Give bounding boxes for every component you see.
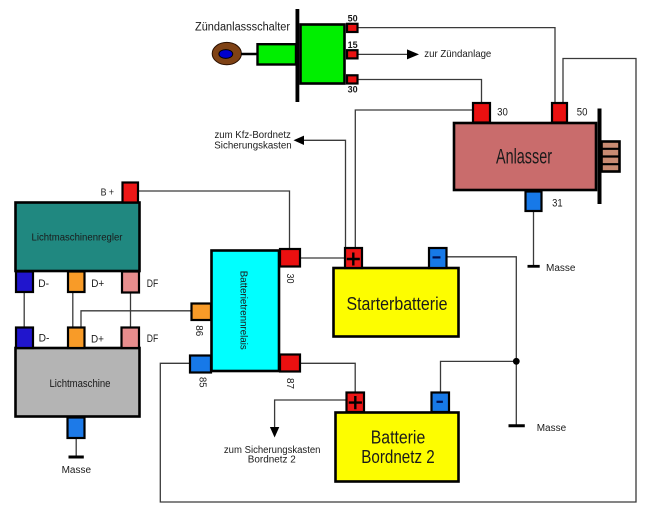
Batterie Bordnetz 2 plus terminal: [347, 393, 365, 413]
Batterie Bordnetz 2 body: [336, 413, 459, 482]
Starterbatterie plus terminal: [345, 248, 362, 268]
wire: regulator D- to Lichtmaschine D-: [23, 292, 25, 328]
arrowhead zum Sicherungskasten Bordnetz 2: [270, 427, 279, 438]
svg-text:30: 30: [284, 274, 296, 284]
svg-text:Masse: Masse: [546, 263, 576, 274]
wire: Lichtmaschine bottom terminal to ground: [75, 438, 77, 456]
junction dot: [513, 358, 520, 365]
ignition switch key inner ellipse: [219, 50, 233, 59]
relay terminal 30: [280, 249, 300, 267]
Starterbatterie body: [334, 268, 459, 337]
svg-text:DF: DF: [147, 333, 159, 345]
Lichtmaschine terminal D-: [16, 328, 33, 349]
svg-text:86: 86: [193, 325, 205, 336]
wire: ignition switch terminal 30 to Anlasser terminal 30: [358, 80, 482, 104]
wire: Starterbatterie plus to Anlasser terminal 30: [355, 110, 472, 248]
relay terminal 85: [190, 356, 211, 373]
svg-text:Bordnetz 2: Bordnetz 2: [361, 447, 435, 467]
svg-text:DF: DF: [147, 278, 159, 290]
svg-text:B +: B +: [101, 186, 115, 198]
wire: Starterbatterie plus to Kfz-Bordnetz arrow: [297, 140, 346, 248]
wire: relay terminal 87 to Batterie Bordnetz 2 plus: [300, 363, 355, 392]
svg-text:D+: D+: [91, 333, 104, 345]
svg-text:50: 50: [348, 14, 358, 24]
wire: ignition switch terminal 50 to Anlasser terminal 50: [358, 28, 555, 102]
svg-text:Bordnetz 2: Bordnetz 2: [248, 455, 296, 466]
wire: ignition switch terminal 15 to zur Zündanlage arrow: [358, 53, 409, 55]
Batterie Bordnetz 2 minus terminal: [432, 393, 450, 413]
Lichtmaschine terminal D+: [68, 328, 85, 349]
relay terminal 87: [280, 355, 300, 372]
regulator terminal DF: [122, 272, 139, 293]
wire: relay terminal 85 loop via bottom and right side to Anlasser terminal 50: [160, 59, 636, 503]
svg-text:Sicherungskasten: Sicherungskasten: [214, 140, 291, 151]
svg-text:Lichtmaschine: Lichtmaschine: [50, 378, 111, 390]
Batterietrennrelais body: [212, 251, 280, 372]
wire: regulator B+ to relay terminal 30: [138, 191, 290, 249]
label zum Sicherungskasten Bordnetz 2: [224, 445, 321, 466]
wire: Batterie Bordnetz 2 minus to junction: [441, 361, 517, 392]
arrowhead zum Kfz-Bordnetz: [294, 136, 305, 145]
Starterbatterie minus terminal: [429, 248, 447, 268]
wire: regulator D+ to Lichtmaschine D+: [72, 292, 74, 328]
svg-text:Batterietrennrelais: Batterietrennrelais: [238, 271, 250, 350]
wire: regulator DF to Lichtmaschine DF: [130, 293, 132, 328]
ignition switch key stem: [241, 53, 258, 56]
svg-text:31: 31: [552, 198, 563, 210]
wire: Starterbatterie minus to ground: [447, 257, 516, 425]
regulator terminal B+: [123, 183, 139, 203]
svg-text:87: 87: [284, 378, 296, 389]
ignition switch terminal 15: [347, 50, 358, 58]
ignition switch terminal 30: [347, 75, 358, 83]
Anlasser terminal 50: [552, 103, 567, 123]
ignition switch mounting bar: [296, 9, 300, 102]
svg-text:Masse: Masse: [537, 423, 567, 434]
svg-text:Lichtmaschinenregler: Lichtmaschinenregler: [32, 232, 123, 244]
arrowhead zur Zündanlage: [407, 49, 419, 59]
svg-text:Masse: Masse: [62, 465, 92, 476]
svg-text:30: 30: [348, 84, 358, 94]
Anlasser terminal 31: [526, 192, 542, 212]
ignition switch small green block: [258, 44, 297, 64]
wire: Batterie Bordnetz 2 plus to Sicherungskasten arrow: [275, 400, 347, 429]
Lichtmaschine terminal DF: [122, 328, 140, 349]
Anlasser body: [454, 123, 596, 190]
svg-text:D-: D-: [38, 278, 49, 290]
svg-text:85: 85: [197, 377, 209, 388]
Anlasser mounting bar: [598, 109, 602, 205]
Lichtmaschine body: [16, 348, 140, 417]
svg-text:Batterie: Batterie: [371, 428, 426, 448]
svg-text:D+: D+: [91, 278, 104, 290]
svg-text:Starterbatterie: Starterbatterie: [347, 294, 448, 314]
ground Masse at Anlasser: [528, 265, 540, 268]
regulator terminal D+: [68, 272, 85, 293]
ignition switch terminal 50: [347, 24, 358, 32]
Lichtmaschinenregler body: [16, 203, 140, 272]
wire: relay terminal 30 to Starterbatterie plus: [300, 257, 344, 259]
svg-text:15: 15: [348, 40, 358, 50]
svg-text:zur Zündanlage: zur Zündanlage: [424, 48, 491, 60]
svg-text:Anlasser: Anlasser: [496, 146, 552, 169]
Anlasser pinion block: [602, 142, 620, 172]
svg-text:D-: D-: [39, 332, 50, 344]
Lichtmaschine bottom terminal: [68, 418, 85, 439]
ground Masse right (battery minus): [509, 424, 525, 427]
label zum Kfz-Bordnetz Sicherungskasten: [214, 130, 291, 151]
Anlasser terminal 30: [473, 103, 490, 123]
ground Masse at Lichtmaschine: [69, 456, 84, 459]
svg-text:Zündanlassschalter: Zündanlassschalter: [195, 22, 290, 34]
wire: Anlasser terminal 31 to ground: [533, 212, 535, 266]
relay terminal 86: [192, 304, 212, 321]
regulator terminal D-: [16, 272, 33, 293]
ignition switch body (Zündanlassschalter): [301, 25, 345, 84]
ignition switch key outer ellipse: [212, 42, 241, 64]
svg-text:50: 50: [577, 106, 588, 118]
wire: Lichtmaschine D+ to relay terminal 86: [81, 311, 192, 328]
svg-text:30: 30: [497, 106, 508, 118]
